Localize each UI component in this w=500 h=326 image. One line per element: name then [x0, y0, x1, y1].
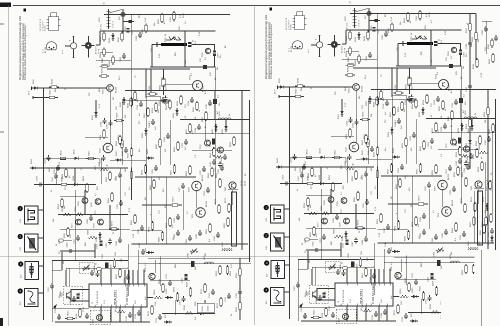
- svg-text:C368: C368: [124, 277, 126, 283]
- capacitor C267: [179, 183, 185, 192]
- resistor R281: [149, 221, 154, 232]
- junction dot 25: [94, 250, 96, 252]
- wire bottom rail: [55, 321, 150, 323]
- value annotation R56: [175, 51, 177, 56]
- value annotation x1: [481, 156, 483, 159]
- diode D358: [96, 232, 102, 242]
- resistor R247: [86, 150, 96, 160]
- svg-text:D212: D212: [109, 37, 111, 43]
- svg-text:C312: C312: [135, 313, 137, 319]
- value annotation R51: [139, 13, 141, 18]
- IC package outline (DIP, rotated): [40, 13, 61, 32]
- resistor R270: [170, 196, 180, 206]
- value annotation 2W: [63, 261, 65, 264]
- resistor R220: [160, 77, 168, 90]
- junction dot 19: [74, 184, 76, 186]
- resistor R326: [236, 301, 241, 312]
- long vertical x131: [131, 15, 133, 201]
- part number frame: [197, 303, 214, 313]
- wire seam link: [482, 20, 492, 22]
- capacitor C340: [485, 136, 491, 145]
- capacitor C300: [88, 264, 94, 276]
- value annotation 12V: [125, 26, 127, 30]
- capacitor C311: [126, 312, 132, 321]
- svg-text:C222: C222: [149, 85, 151, 91]
- svg-text:C336: C336: [206, 103, 208, 109]
- resistor R204: [170, 11, 175, 22]
- junction dot 14: [159, 90, 161, 92]
- value annotation R77: [165, 203, 167, 208]
- resistor R359: [131, 214, 136, 225]
- svg-text:R253: R253: [142, 169, 144, 175]
- svg-text:R326: R326: [236, 306, 238, 312]
- long vertical x146 lower: [145, 98, 147, 244]
- resistor R290: [480, 224, 485, 235]
- value annotation 4V: [81, 167, 83, 170]
- wire rail y119: [180, 119, 250, 121]
- long vertical x166: [165, 177, 167, 244]
- transistor sketch above delay line: [165, 36, 181, 42]
- resistor R224: [166, 99, 171, 110]
- wire rail y137: [85, 136, 108, 138]
- capacitor C396: [204, 187, 210, 196]
- svg-text:C342: C342: [221, 157, 223, 163]
- svg-text:R405: R405: [482, 221, 484, 227]
- svg-text:R397: R397: [144, 112, 146, 118]
- wire rail y97: [33, 96, 58, 99]
- wire right col: [475, 14, 477, 67]
- wire vertical x239 mid: [485, 162, 487, 243]
- svg-text:R316: R316: [184, 304, 186, 310]
- svg-text:R255: R255: [171, 169, 173, 175]
- svg-text:C285: C285: [196, 233, 198, 239]
- junction dot 11: [199, 243, 201, 245]
- junction dot 20: [55, 184, 57, 186]
- svg-text:R378: R378: [76, 313, 78, 319]
- svg-text:R375: R375: [148, 310, 150, 316]
- long vertical x175: [174, 300, 176, 315]
- wire drop x226: [225, 119, 226, 124]
- svg-text:R356: R356: [64, 232, 66, 238]
- value annotation 680: [479, 241, 481, 245]
- long vertical x205b: [204, 120, 206, 140]
- svg-text:BF459: BF459: [202, 174, 204, 181]
- diode D212: [109, 33, 115, 43]
- value annotation 4,7: [187, 210, 189, 214]
- svg-text:R367: R367: [116, 273, 118, 279]
- label cluster top right: [180, 13, 185, 18]
- diode D217: [32, 78, 40, 89]
- svg-text:R226: R226: [127, 102, 129, 108]
- wire drop x215b: [214, 90, 215, 120]
- svg-text:1,2V: 1,2V: [199, 31, 201, 36]
- junction dot 28: [159, 263, 161, 265]
- scope box wire taps: [38, 210, 44, 293]
- svg-text:D249: D249: [31, 158, 33, 164]
- wire rail y244: [132, 243, 249, 245]
- zigzag resistor R276: [62, 206, 72, 216]
- resistor R407: [118, 134, 123, 149]
- junction dot 15: [188, 90, 190, 92]
- title text (German, rotated): [18, 16, 22, 80]
- svg-text:102.40: 102.40: [208, 306, 210, 312]
- svg-text:2 4 5: 2 4 5: [104, 300, 106, 304]
- IC pin wires: [101, 270, 144, 284]
- svg-text:0,4V: 0,4V: [145, 17, 147, 22]
- svg-text:R247: R247: [89, 150, 91, 156]
- svg-text:250V: 250V: [183, 13, 185, 18]
- capacitor C284: [186, 235, 192, 244]
- svg-text:IC 350 Sync-Impuls: IC 350 Sync-Impuls: [126, 283, 129, 305]
- transistor T206: [193, 40, 211, 57]
- svg-text:R258: R258: [478, 166, 480, 172]
- svg-text:Dr 3,9: Dr 3,9: [240, 181, 243, 186]
- resistor R391: [216, 265, 221, 276]
- svg-text:C267: C267: [179, 186, 181, 192]
- value annotation 22u: [59, 295, 61, 298]
- wire rail y96b: [146, 95, 160, 97]
- svg-text:R279: R279: [112, 220, 114, 226]
- svg-text:R365: R365: [224, 222, 226, 228]
- resistor R240: [489, 123, 494, 134]
- resistor R214: [100, 57, 110, 67]
- wire vert left: [151, 45, 153, 68]
- value annotation 1W: [205, 253, 207, 256]
- value annotation 0,2V: [481, 72, 483, 77]
- svg-text:C287: C287: [106, 242, 108, 248]
- capacitor C360: [138, 225, 144, 234]
- capacitor C307: [180, 296, 186, 305]
- svg-text:R337: R337: [186, 128, 188, 134]
- capacitor C355: [117, 200, 123, 209]
- long vertical x128: [127, 244, 129, 296]
- resistor R384: [142, 23, 147, 34]
- wire drop x85: [84, 190, 86, 215]
- value annotation 2,2: [191, 72, 193, 76]
- svg-text:R380: R380: [109, 60, 111, 66]
- capacitor C398: [149, 119, 155, 128]
- svg-text:D291: D291: [488, 239, 490, 245]
- transistor T309: [93, 315, 103, 324]
- svg-text:C379: C379: [83, 306, 85, 312]
- transistor T268: [78, 198, 88, 206]
- right page fold line: [481, 250, 483, 326]
- value annotation 1n: [51, 190, 53, 192]
- svg-text:IC 350: IC 350: [45, 26, 47, 31]
- svg-text:D399: D399: [142, 132, 144, 138]
- capacitor C362: [174, 214, 180, 223]
- wire drop x62: [61, 252, 63, 270]
- value annotation 1n5: [185, 146, 187, 150]
- resistor R298 (elec): [74, 293, 80, 302]
- value annotation 100: [165, 148, 167, 152]
- value annotation 0,1u: [59, 314, 61, 318]
- capacitor C394: [218, 165, 224, 174]
- svg-text:D345: D345: [116, 150, 118, 156]
- long vertical x52b: [51, 261, 53, 323]
- wire rail y150: [192, 149, 232, 151]
- svg-text:R218: R218: [52, 78, 54, 84]
- resistor R273: [225, 197, 230, 213]
- scope waveform 4 (parabola): [18, 288, 38, 306]
- svg-text:R251: R251: [99, 161, 101, 167]
- long vertical x170: [169, 120, 171, 165]
- diode D322: [466, 138, 472, 148]
- capacitor C229: [107, 120, 113, 129]
- long vertical x122: [121, 100, 123, 165]
- resistor R319: [473, 58, 478, 69]
- svg-text:C383: C383: [136, 35, 138, 41]
- svg-text:1n: 1n: [51, 190, 53, 192]
- zigzag resistor R316: [184, 304, 194, 314]
- svg-text:R208: R208: [472, 36, 474, 42]
- value annotation 0,9: [205, 56, 207, 60]
- resistor R341: [210, 147, 215, 158]
- capacitor C312: [135, 310, 141, 319]
- svg-text:R270: R270: [173, 196, 175, 202]
- svg-text:R290: R290: [480, 229, 482, 235]
- junction dot 21: [43, 209, 45, 211]
- resistor R296: [111, 258, 116, 269]
- svg-text:R273: R273: [225, 197, 227, 203]
- wire row y158: [44, 157, 100, 159]
- bead on rail: [200, 57, 207, 69]
- value annotation C85: [121, 257, 123, 262]
- wire rail y214: [58, 214, 128, 216]
- diode D235: [212, 124, 218, 134]
- junction dot 32: [143, 269, 145, 271]
- value annotation 5,9: [491, 187, 493, 191]
- resistor R256: [186, 165, 191, 176]
- value annotation 220: [163, 188, 165, 192]
- zigzag resistor R286: [88, 229, 98, 239]
- svg-text:C412: C412: [139, 242, 141, 248]
- resistor R321: [466, 118, 471, 129]
- junction dot 18: [122, 14, 124, 16]
- zigzag resistor R310: [116, 303, 126, 313]
- capacitor C223: [163, 96, 171, 105]
- resistor R400: [156, 138, 161, 149]
- junction dot 31: [110, 269, 112, 271]
- svg-text:R348: R348: [62, 173, 64, 179]
- resistor R380: [109, 55, 114, 66]
- svg-text:10V: 10V: [119, 16, 121, 20]
- bus loop rectangle: [232, 192, 237, 246]
- value annotation D60: [49, 167, 51, 172]
- resistor R354: [108, 192, 113, 203]
- diode D291: [488, 235, 494, 245]
- svg-text:R361: R361: [166, 222, 168, 228]
- wire rail y31: [100, 30, 215, 32]
- capacitor C411 (elec): [182, 274, 188, 283]
- wire vertical x228 low: [473, 191, 475, 243]
- resistor R306: [174, 286, 179, 302]
- junction dot 16: [214, 30, 216, 32]
- bead x215: [213, 99, 221, 106]
- resistor R219: [47, 89, 57, 99]
- capacitor C347: [52, 173, 58, 182]
- value annotation 3,3V: [133, 233, 135, 238]
- resistor R203: [158, 13, 166, 24]
- resistor R211: [100, 31, 105, 42]
- svg-text:Kl. 10-2: Kl. 10-2: [101, 24, 103, 30]
- resistor R371: [201, 283, 206, 294]
- scope waveform 3 (burst): [18, 261, 38, 279]
- junction dot 29: [204, 263, 206, 265]
- ferrite bead L202: [188, 42, 192, 47]
- svg-text:C318: C318: [466, 43, 468, 49]
- svg-text:D322: D322: [466, 142, 468, 148]
- svg-text:C389: C389: [188, 252, 190, 258]
- resistor R397: [144, 107, 149, 118]
- resistor R264: [216, 172, 221, 188]
- value annotation 3k9: [125, 168, 127, 172]
- svg-text:1,8V: 1,8V: [103, 145, 105, 150]
- svg-text:C396: C396: [204, 190, 206, 196]
- svg-text:2,4V: 2,4V: [185, 115, 187, 120]
- value annotation 1k: [165, 33, 167, 36]
- svg-text:C333: C333: [159, 100, 161, 106]
- svg-text:C232: C232: [188, 100, 190, 106]
- left edge tick 2: [0, 131, 4, 133]
- terminal lug: [56, 239, 72, 246]
- transistor T265: [225, 182, 236, 192]
- wire rail y196: [60, 195, 85, 197]
- diode D334: [173, 108, 179, 118]
- resistor R282: [159, 231, 164, 242]
- svg-text:R384: R384: [142, 28, 144, 34]
- svg-text:D261: D261: [73, 175, 75, 181]
- svg-text:TDA 2591: TDA 2591: [114, 290, 118, 305]
- value annotation 0,4V: [145, 17, 147, 22]
- scope waveform 2 (ramp shaded): [18, 234, 38, 252]
- capacitor C344: [122, 147, 128, 156]
- capacitor C299: [70, 296, 76, 305]
- capacitor C295 (bead): [102, 253, 109, 268]
- diode D409: [210, 141, 216, 155]
- junctions y31: [103, 30, 122, 31]
- svg-text:R341: R341: [210, 152, 212, 158]
- svg-text:C320: C320: [466, 86, 468, 92]
- svg-text:R241: R241: [479, 144, 481, 150]
- diode D261: [72, 175, 80, 186]
- bottom-left corner mark: [0, 318, 3, 326]
- svg-text:C362: C362: [174, 217, 176, 223]
- junction dot 24: [43, 292, 45, 294]
- svg-text:C340: C340: [485, 139, 487, 145]
- long vertical x215 lower: [214, 67, 216, 205]
- title text (English, rotated): [21, 23, 25, 80]
- svg-text:C280: C280: [87, 218, 89, 224]
- svg-text:C288: C288: [116, 240, 118, 246]
- value annotation R88: [175, 263, 177, 268]
- resistor R218: [49, 78, 59, 88]
- svg-text:e b c: e b c: [62, 50, 64, 54]
- svg-text:R310: R310: [116, 303, 118, 309]
- value annotation C82: [115, 251, 117, 256]
- value annotation 0,1: [195, 40, 197, 44]
- top parts row: [139, 242, 154, 255]
- capacitor C403: [182, 139, 188, 148]
- svg-text:R354: R354: [108, 197, 110, 203]
- svg-text:R240: R240: [489, 128, 491, 134]
- svg-text:C364: C364: [214, 235, 216, 241]
- resistor R230: [114, 112, 124, 122]
- transistor package TO-92 (bottom view): [43, 42, 57, 53]
- zigzag resistor R241: [479, 144, 488, 154]
- value annotation C55: [151, 47, 153, 52]
- junction dot 2: [119, 167, 121, 169]
- svg-text:C376: C376: [156, 317, 158, 323]
- corner arrow mark: [53, 304, 57, 309]
- wire rail y165: [110, 159, 146, 161]
- long vertical x120: [119, 168, 121, 237]
- svg-text:7 8 9 11 13 14: 7 8 9 11 13 14: [97, 290, 99, 305]
- svg-text:R335: R335: [193, 106, 195, 112]
- wire rail y260: [52, 260, 128, 262]
- wire col x224: [469, 14, 471, 170]
- svg-text:0,3: 0,3: [218, 95, 220, 98]
- value annotation C93: [485, 46, 487, 51]
- svg-text:C381: C381: [120, 56, 122, 62]
- top border rule: [13, 4, 500, 6]
- long vertical x101: [100, 158, 102, 184]
- junction dot 27: [127, 267, 129, 269]
- wire rail y88: [40, 87, 107, 89]
- value annotation B8: [225, 45, 227, 48]
- svg-text:R350: R350: [106, 176, 108, 182]
- svg-text:C367: C367: [48, 286, 50, 292]
- junction dot 12: [131, 90, 133, 92]
- diode D246: [73, 149, 81, 160]
- resistor R317: [466, 22, 471, 33]
- long vertical x151b: [150, 177, 152, 222]
- wire rail y230: [132, 229, 163, 231]
- value annotation 235V: [99, 17, 101, 22]
- value annotation D52: [179, 25, 181, 30]
- svg-text:R256: R256: [186, 170, 188, 176]
- value annotation 1k5: [113, 96, 115, 100]
- resistor R330: [131, 91, 139, 102]
- capacitor C331: [137, 101, 143, 110]
- resistor R367b: [116, 268, 121, 279]
- diode D236: [222, 124, 228, 134]
- value annotation 1,2V: [199, 31, 201, 36]
- value annotation 11,4: [119, 75, 121, 80]
- svg-text:R281: R281: [149, 226, 151, 232]
- wire col x249: [249, 100, 251, 262]
- value annotation T92: [125, 304, 127, 308]
- svg-text:C292: C292: [67, 242, 69, 248]
- IC pin wires below: [101, 307, 141, 322]
- wire drop x110: [109, 205, 111, 229]
- value annotation R96: [55, 87, 57, 92]
- wire delay line to bus: [192, 44, 215, 46]
- svg-text:R231: R231: [177, 100, 179, 106]
- wire node drop: [122, 9, 123, 34]
- resistor R324: [236, 267, 241, 278]
- wire rail y168: [30, 167, 128, 169]
- wire rail y100: [125, 99, 170, 101]
- transistor T297 (arrow glyph): [61, 291, 71, 299]
- capacitor C285: [196, 230, 202, 239]
- svg-text:10n: 10n: [59, 241, 61, 244]
- resistor R392: [226, 265, 232, 276]
- page margin mask bottom-right: [441, 280, 500, 326]
- resistor R255: [171, 164, 176, 175]
- node marker 10: [104, 1, 106, 4]
- value annotation 15k: [95, 304, 97, 308]
